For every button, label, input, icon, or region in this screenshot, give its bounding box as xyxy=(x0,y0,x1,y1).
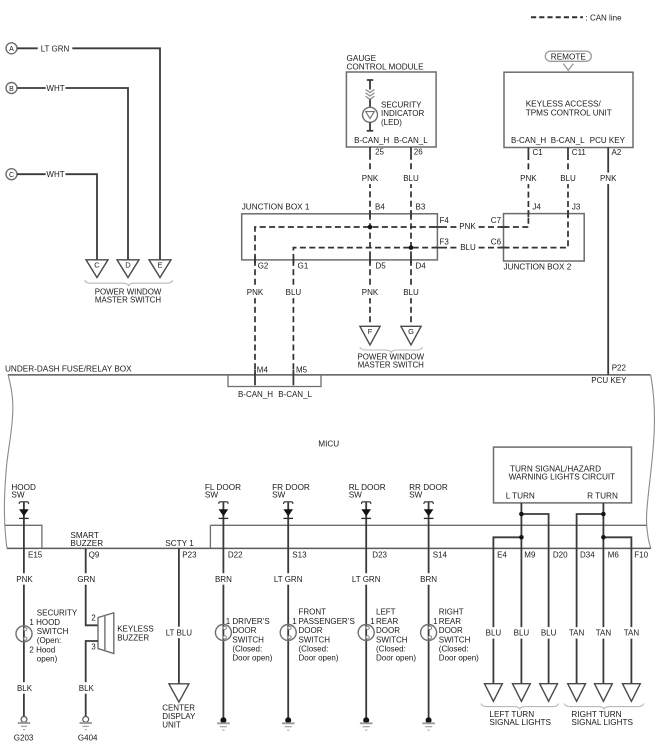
svg-text:PCU KEY: PCU KEY xyxy=(590,136,626,145)
wire A2 to P22 (PNK, PCU KEY) xyxy=(607,148,609,375)
wire C1 to J4 (PNK CAN) xyxy=(527,154,529,214)
wire F10 to turn signal light (TAN) xyxy=(630,548,632,683)
svg-text:SECURITY: SECURITY xyxy=(37,609,78,618)
svg-text:(Closed:: (Closed: xyxy=(299,645,329,654)
FR door switch connector arrow xyxy=(284,502,293,504)
svg-text:SWITCH: SWITCH xyxy=(232,635,264,644)
wire C (WHT) xyxy=(17,174,97,259)
svg-text:1: 1 xyxy=(433,617,438,626)
connector arrow E xyxy=(149,260,171,278)
svg-text:D4: D4 xyxy=(416,262,427,271)
svg-text:3: 3 xyxy=(91,642,95,651)
left rear door switch xyxy=(358,625,374,641)
right rear door switch xyxy=(421,625,437,641)
svg-text:G1: G1 xyxy=(298,262,309,271)
connector arrow (E4) xyxy=(485,684,503,702)
svg-text:DOOR: DOOR xyxy=(299,626,323,635)
svg-text:1: 1 xyxy=(370,617,375,626)
svg-text:E15: E15 xyxy=(28,550,43,559)
B-CAN connector block xyxy=(228,375,321,387)
svg-text:PNK: PNK xyxy=(459,222,476,231)
wire F3 to C6 (BLU CAN) xyxy=(441,247,504,249)
svg-text:(Closed:: (Closed: xyxy=(376,645,406,654)
svg-text:C: C xyxy=(9,172,14,179)
connector B xyxy=(6,83,17,94)
junction node on CAN H xyxy=(368,225,373,230)
svg-text:C: C xyxy=(94,261,100,270)
svg-text:LT GRN: LT GRN xyxy=(41,44,70,53)
svg-text:REAR: REAR xyxy=(376,617,398,626)
svg-text:BLK: BLK xyxy=(17,684,33,693)
pin J4 xyxy=(527,210,529,217)
svg-text:PNK: PNK xyxy=(520,174,537,183)
svg-text:B-CAN_L: B-CAN_L xyxy=(394,136,428,145)
pin C7 xyxy=(500,226,507,228)
svg-text:PASSENGER’S: PASSENGER’S xyxy=(299,617,355,626)
wire branch to D34 xyxy=(577,514,604,548)
wire P23 to center display unit (LT BLU) xyxy=(178,548,180,683)
svg-text:INDICATOR: INDICATOR xyxy=(381,109,424,118)
svg-text:PNK: PNK xyxy=(362,174,379,183)
svg-text:Door open): Door open) xyxy=(439,654,479,663)
svg-text:SWITCH: SWITCH xyxy=(37,627,69,636)
svg-text:D34: D34 xyxy=(580,550,595,559)
wire D4 to arrow G (BLU CAN) xyxy=(410,260,412,326)
svg-text:JUNCTION BOX 1: JUNCTION BOX 1 xyxy=(242,202,310,211)
pin G1 xyxy=(292,256,294,263)
svg-text:B4: B4 xyxy=(375,202,385,211)
wire Q9 to keyless buzzer (GRN) xyxy=(86,548,98,625)
svg-text:D: D xyxy=(125,261,131,270)
svg-text:R TURN: R TURN xyxy=(587,492,618,501)
svg-text:G: G xyxy=(408,327,414,336)
hood switch section outline xyxy=(5,525,42,548)
svg-text:P22: P22 xyxy=(612,363,627,372)
left turn signal lights label xyxy=(481,704,559,709)
svg-text:JUNCTION BOX 2: JUNCTION BOX 2 xyxy=(504,263,572,272)
wire D20 to turn signal light (BLU) xyxy=(548,548,550,683)
svg-text:MASTER SWITCH: MASTER SWITCH xyxy=(358,360,424,369)
wire B (WHT) xyxy=(17,88,128,260)
power window master switch label (middle) xyxy=(360,347,423,352)
svg-text:B3: B3 xyxy=(416,202,426,211)
svg-text:E4: E4 xyxy=(497,550,507,559)
svg-text:BUZZER: BUZZER xyxy=(70,539,103,548)
svg-text:B-CAN_H: B-CAN_H xyxy=(238,390,273,399)
svg-text:G2: G2 xyxy=(258,262,269,271)
wire to left rear door switch (LT GRN) xyxy=(349,573,384,585)
svg-text:DOOR: DOOR xyxy=(232,626,256,635)
svg-text:25: 25 xyxy=(375,148,384,157)
svg-text:LT GRN: LT GRN xyxy=(274,575,303,584)
svg-text:SW: SW xyxy=(349,490,362,499)
power window master switch label (left) xyxy=(85,280,173,285)
svg-text:PNK: PNK xyxy=(600,174,617,183)
pin M5 xyxy=(292,370,294,386)
wire M9 to turn signal light (BLU) xyxy=(520,548,522,683)
wire C6 to J3 inside JB2 xyxy=(504,214,569,248)
connector arrow (D34) xyxy=(568,684,586,702)
svg-text:D5: D5 xyxy=(376,262,387,271)
svg-text:G203: G203 xyxy=(14,733,34,742)
svg-text:L TURN: L TURN xyxy=(506,492,535,501)
svg-text:DOOR: DOOR xyxy=(376,626,400,635)
svg-text:(LED): (LED) xyxy=(381,118,402,127)
svg-text:BLU: BLU xyxy=(486,629,502,638)
svg-text:FRONT: FRONT xyxy=(299,608,327,617)
svg-text:C7: C7 xyxy=(491,216,502,225)
svg-text:A: A xyxy=(9,46,14,53)
RL door switch connector arrow xyxy=(362,502,371,504)
wire to driver's door switch (BRN) xyxy=(214,573,234,585)
security hood switch S1 xyxy=(16,626,32,642)
svg-text:SIGNAL LIGHTS: SIGNAL LIGHTS xyxy=(571,718,633,727)
svg-text:S13: S13 xyxy=(292,550,307,559)
svg-text:M6: M6 xyxy=(608,550,620,559)
svg-text:Door open): Door open) xyxy=(376,654,416,663)
svg-text:C6: C6 xyxy=(491,237,502,246)
svg-text:(Open:: (Open: xyxy=(37,636,61,645)
junction node on CAN L xyxy=(409,245,414,250)
keyless access / TPMS control unit U2 xyxy=(504,72,633,147)
wire to front passenger's door switch (LT GRN) xyxy=(271,573,306,585)
wire branch to E4 xyxy=(493,537,521,548)
hood switch connector arrow xyxy=(19,502,28,504)
junction box 2 xyxy=(504,214,585,261)
svg-text:SWITCH: SWITCH xyxy=(439,635,471,644)
svg-text:D20: D20 xyxy=(553,550,568,559)
svg-text:LEFT: LEFT xyxy=(376,608,396,617)
driver's door switch xyxy=(215,625,231,641)
connector arrow (D20) xyxy=(540,684,558,702)
svg-text:BLU: BLU xyxy=(286,288,302,297)
svg-text:BLU: BLU xyxy=(460,243,476,252)
wire F4 to C7 (PNK CAN) xyxy=(441,226,504,228)
svg-text:REAR: REAR xyxy=(439,617,461,626)
svg-text:B-CAN_H: B-CAN_H xyxy=(511,136,546,145)
wire hood switch to G203 (BLK) xyxy=(15,682,35,694)
FL door switch connector arrow xyxy=(219,502,228,504)
pin C6 xyxy=(500,247,507,249)
ground (right rear door switch) xyxy=(426,717,432,723)
svg-text:BRN: BRN xyxy=(420,575,437,584)
svg-text:MASTER SWITCH: MASTER SWITCH xyxy=(95,296,161,305)
ground (front passenger's door switch) xyxy=(285,717,291,723)
keyless buzzer BZ1 xyxy=(98,613,114,654)
connector arrow C xyxy=(86,260,108,278)
connector arrow to center display unit xyxy=(169,684,189,702)
connector arrow D xyxy=(117,260,139,278)
wire M6 to turn signal light (TAN) xyxy=(602,548,604,683)
svg-text:C11: C11 xyxy=(572,148,587,157)
svg-text:BLU: BLU xyxy=(560,174,576,183)
security indicator LED D1 xyxy=(367,79,373,81)
pin M4 xyxy=(254,370,256,386)
wire C7 to J4 inside JB2 xyxy=(504,214,529,227)
svg-text:PCU KEY: PCU KEY xyxy=(591,376,627,385)
svg-text:M9: M9 xyxy=(524,550,536,559)
wire pin25 to B4 (PNK CAN) xyxy=(369,154,371,214)
ground G404 xyxy=(83,717,89,723)
svg-text:DRIVER’S: DRIVER’S xyxy=(232,617,269,626)
svg-text:TAN: TAN xyxy=(569,629,585,638)
svg-text:KEYLESS ACCESS/: KEYLESS ACCESS/ xyxy=(526,100,602,109)
svg-text:BLK: BLK xyxy=(79,684,95,693)
svg-text:CONTROL MODULE: CONTROL MODULE xyxy=(347,62,425,71)
svg-text:MICU: MICU xyxy=(318,439,339,448)
svg-text:BLU: BLU xyxy=(541,629,557,638)
svg-text:F3: F3 xyxy=(440,237,450,246)
wire branch to F10 xyxy=(603,537,631,548)
CAN line legend xyxy=(531,16,583,18)
svg-text:SWITCH: SWITCH xyxy=(376,635,408,644)
svg-text:BLU: BLU xyxy=(514,629,530,638)
CAN L bus inside JB1 (F3 line) xyxy=(293,248,437,260)
svg-text:F10: F10 xyxy=(634,550,648,559)
wire to right rear door switch (BRN) xyxy=(419,573,439,585)
svg-text:TAN: TAN xyxy=(624,629,640,638)
svg-text:B-CAN_L: B-CAN_L xyxy=(278,390,312,399)
pin D4 xyxy=(410,256,412,263)
svg-text:B: B xyxy=(9,86,14,93)
pin B4 xyxy=(369,210,371,217)
ground (driver's door switch) xyxy=(220,717,226,723)
svg-text:SW: SW xyxy=(409,490,422,499)
wire buzzer to G404 (BLK) xyxy=(86,641,98,717)
wire C11 to J3 (BLU CAN) xyxy=(567,154,569,214)
connector A xyxy=(6,43,17,54)
ground G203 xyxy=(21,717,27,723)
node L TURN lower xyxy=(519,535,524,540)
svg-text:1 HOOD: 1 HOOD xyxy=(29,618,60,627)
svg-text:SWITCH: SWITCH xyxy=(299,635,331,644)
wire A (LT GRN) xyxy=(17,48,160,259)
svg-text:D23: D23 xyxy=(372,550,387,559)
wire D5 to arrow F (PNK CAN) xyxy=(369,260,371,326)
svg-text:1: 1 xyxy=(292,617,297,626)
svg-text:Door open): Door open) xyxy=(299,654,339,663)
svg-text:BUZZER: BUZZER xyxy=(117,634,149,643)
pin F4 xyxy=(434,226,441,228)
svg-text:1: 1 xyxy=(226,617,231,626)
RR door switch connector arrow xyxy=(424,502,433,504)
svg-text:UNDER-DASH FUSE/RELAY BOX: UNDER-DASH FUSE/RELAY BOX xyxy=(5,365,132,374)
svg-text:SW: SW xyxy=(272,490,285,499)
REMOTE node xyxy=(545,51,591,61)
svg-text:DOOR: DOOR xyxy=(439,626,463,635)
svg-text:(Closed:: (Closed: xyxy=(232,645,262,654)
svg-text:BLU: BLU xyxy=(403,288,419,297)
svg-text:C1: C1 xyxy=(533,148,544,157)
wire L TURN xyxy=(520,503,522,549)
svg-text:Q9: Q9 xyxy=(89,550,100,559)
svg-text:M5: M5 xyxy=(296,365,308,374)
wire pin26 to B3 (BLU CAN) xyxy=(410,154,412,214)
wire R TURN xyxy=(602,503,604,549)
node R TURN upper xyxy=(601,512,606,517)
svg-text:Door open): Door open) xyxy=(232,654,272,663)
svg-text:RIGHT: RIGHT xyxy=(439,608,464,617)
pin D5 xyxy=(369,256,371,263)
svg-text:open): open) xyxy=(37,655,58,664)
svg-text:26: 26 xyxy=(414,148,423,157)
svg-text:LT GRN: LT GRN xyxy=(352,575,381,584)
svg-text:S14: S14 xyxy=(433,550,448,559)
svg-text:G404: G404 xyxy=(78,733,98,742)
door switch section outline xyxy=(210,525,647,548)
connector arrow (M6) xyxy=(595,684,613,702)
svg-text:F: F xyxy=(368,327,373,336)
ground (left rear door switch) xyxy=(363,717,369,723)
svg-text:J4: J4 xyxy=(532,202,541,211)
svg-text:PNK: PNK xyxy=(16,575,33,584)
svg-text:P23: P23 xyxy=(182,550,197,559)
svg-text:TPMS CONTROL UNIT: TPMS CONTROL UNIT xyxy=(526,108,612,117)
pin G2 xyxy=(254,256,256,263)
connector C xyxy=(6,169,17,180)
svg-text:BLU: BLU xyxy=(403,174,419,183)
wire G2 to M4 (PNK CAN) xyxy=(254,260,256,375)
svg-text:BRN: BRN xyxy=(215,575,232,584)
right turn signal lights label xyxy=(564,704,643,709)
svg-text:SW: SW xyxy=(11,490,24,499)
CAN H bus inside JB1 (F4 line) xyxy=(255,227,437,260)
wire B3-D4 through JB1 xyxy=(410,214,412,260)
connector arrow G xyxy=(401,326,421,345)
node L TURN upper xyxy=(519,512,524,517)
svg-text:TAN: TAN xyxy=(596,629,612,638)
svg-text:2: 2 xyxy=(91,613,95,622)
svg-text:SCTY 1: SCTY 1 xyxy=(165,539,194,548)
pin J3 xyxy=(567,210,569,217)
svg-text:GRN: GRN xyxy=(77,575,95,584)
wire E15 to hood switch (PNK) xyxy=(15,573,35,585)
front passenger's door switch xyxy=(280,625,296,641)
svg-text:WHT: WHT xyxy=(46,84,64,93)
svg-text:M4: M4 xyxy=(257,365,269,374)
svg-text:WHT: WHT xyxy=(46,170,64,179)
wire B4-D5 through JB1 xyxy=(369,214,371,260)
connector arrow F xyxy=(360,326,380,345)
svg-text:SIGNAL LIGHTS: SIGNAL LIGHTS xyxy=(489,718,551,727)
svg-text:D22: D22 xyxy=(228,550,243,559)
node R TURN lower xyxy=(601,535,606,540)
connector arrow (M9) xyxy=(513,684,531,702)
wire E4 to turn signal light (BLU) xyxy=(492,548,494,683)
svg-text:WARNING LIGHTS CIRCUIT: WARNING LIGHTS CIRCUIT xyxy=(509,472,616,481)
svg-text:B-CAN_H: B-CAN_H xyxy=(354,136,389,145)
svg-text:E: E xyxy=(157,261,162,270)
svg-text:KEYLESS: KEYLESS xyxy=(117,625,153,634)
svg-text:REMOTE: REMOTE xyxy=(551,52,587,61)
svg-text:PNK: PNK xyxy=(362,288,379,297)
wire D34 to turn signal light (TAN) xyxy=(576,548,578,683)
svg-text:2 Hood: 2 Hood xyxy=(29,645,55,654)
connector arrow (F10) xyxy=(623,684,641,702)
wire G1 to M5 (BLU CAN) xyxy=(292,260,294,375)
pin B3 xyxy=(410,210,412,217)
svg-text:SW: SW xyxy=(205,490,218,499)
svg-text:: CAN line: : CAN line xyxy=(586,14,623,23)
svg-text:UNIT: UNIT xyxy=(162,721,181,730)
svg-text:PNK: PNK xyxy=(247,288,264,297)
pin F3 xyxy=(434,247,441,249)
svg-text:J3: J3 xyxy=(572,202,581,211)
svg-text:F4: F4 xyxy=(440,216,450,225)
turn signal/hazard warning lights circuit xyxy=(494,447,632,503)
svg-text:LT BLU: LT BLU xyxy=(166,628,193,637)
wire branch to D20 xyxy=(521,514,548,548)
svg-text:A2: A2 xyxy=(612,148,622,157)
svg-text:B-CAN_L: B-CAN_L xyxy=(551,136,585,145)
svg-text:(Closed:: (Closed: xyxy=(439,645,469,654)
